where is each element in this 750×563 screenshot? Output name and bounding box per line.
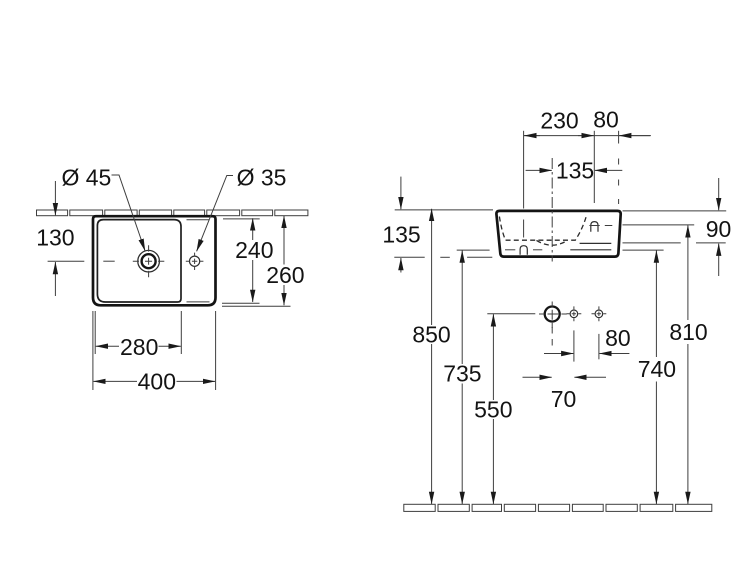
- dimension 80 lower: [544, 325, 631, 354]
- svg-text:740: 740: [638, 356, 676, 382]
- trap outlet hole: [539, 302, 567, 329]
- dimension 135 vertical: [382, 177, 420, 273]
- tap hole circle: [190, 256, 200, 266]
- dimension 70: [523, 377, 607, 412]
- center line (front view): [551, 158, 553, 262]
- extension line right hole column: [593, 131, 595, 203]
- dimension 850: [412, 209, 450, 504]
- hidden drain recess arc: [537, 240, 568, 245]
- svg-text:400: 400: [138, 368, 176, 394]
- drain crosshair: [133, 245, 165, 277]
- dimension 280: [95, 311, 181, 360]
- hidden bowl contour (front view): [499, 216, 586, 240]
- deck hidden edge top: [187, 219, 210, 221]
- dimension 735: [443, 251, 481, 505]
- extension line basin right edge: [618, 131, 620, 204]
- extension lines below holes: [552, 327, 599, 362]
- fixing screw hole left: [567, 306, 582, 321]
- svg-text:280: 280: [120, 334, 158, 360]
- dimension 550: [474, 314, 512, 504]
- drain hole outer circle: [138, 250, 160, 272]
- leader Ø35: [197, 165, 287, 252]
- dimension 810: [669, 225, 707, 504]
- svg-text:230: 230: [540, 108, 578, 134]
- svg-text:135: 135: [382, 221, 420, 247]
- tap hole crosshair: [186, 253, 204, 270]
- svg-text:Ø 35: Ø 35: [237, 165, 287, 191]
- svg-text:80: 80: [605, 325, 631, 351]
- basin body (front view): [496, 211, 620, 257]
- svg-text:850: 850: [412, 322, 450, 348]
- upper fixing hole symbol: [589, 222, 612, 232]
- interior shelf lines (front view): [570, 243, 611, 249]
- centerline dash (top view): [103, 260, 114, 262]
- dimension 740: [638, 251, 676, 505]
- svg-text:90: 90: [706, 216, 732, 242]
- extension line left hole column: [523, 131, 525, 238]
- floor tile band: [404, 504, 712, 511]
- deck hidden edge bottom: [187, 301, 210, 303]
- inner bowl outline (top view): [97, 220, 181, 302]
- svg-text:130: 130: [36, 224, 74, 250]
- svg-text:70: 70: [551, 386, 577, 412]
- svg-text:550: 550: [474, 397, 512, 423]
- svg-text:135: 135: [556, 158, 594, 184]
- dimension 135 horizontal: [526, 158, 623, 184]
- svg-text:240: 240: [235, 237, 273, 263]
- dimension 400: [93, 311, 216, 394]
- lower fixing hole symbol: [505, 246, 542, 255]
- wall tile band (top view): [37, 210, 308, 216]
- svg-text:260: 260: [266, 262, 304, 288]
- dimension 230: [524, 108, 594, 136]
- left extension lines: [394, 210, 535, 314]
- leader Ø45: [61, 165, 145, 252]
- dimension 80 top: [593, 107, 651, 136]
- drain hole inner circle: [142, 254, 156, 268]
- svg-text:735: 735: [443, 361, 481, 387]
- basin outer outline (top view): [93, 216, 216, 305]
- fixing screw hole right: [592, 306, 607, 321]
- svg-text:80: 80: [593, 107, 619, 133]
- svg-text:810: 810: [669, 319, 707, 345]
- svg-text:Ø 45: Ø 45: [61, 165, 111, 191]
- dimension 260: [222, 216, 305, 306]
- dimension 240: [222, 218, 273, 303]
- dimension 130: [36, 181, 84, 296]
- right extension lines: [623, 211, 727, 250]
- dimension 90: [706, 178, 732, 276]
